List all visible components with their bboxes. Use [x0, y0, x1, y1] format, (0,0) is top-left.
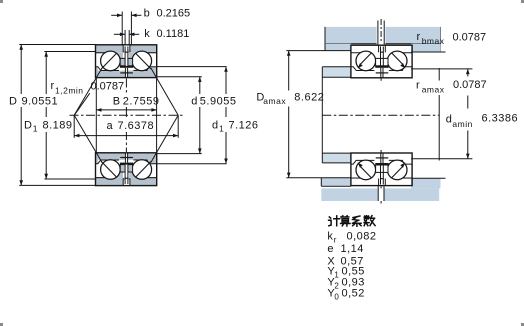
- shaft cut line right: [438, 68, 440, 81]
- svg-text:7.126: 7.126: [229, 119, 259, 131]
- svg-text:5.9055: 5.9055: [200, 96, 237, 108]
- centreline ticks at shaft bore lines: [380, 78, 382, 81]
- svg-text:6.3386: 6.3386: [482, 113, 519, 125]
- shaft shoulder bottom: [323, 153, 352, 163]
- svg-text:r: r: [416, 80, 420, 92]
- dim Da line + arrows: [288, 51, 290, 91]
- housing shoulder top-right: [411, 44, 440, 52]
- vertical centreline left figure: [125, 79, 127, 95]
- svg-text:e: e: [327, 243, 334, 255]
- svg-text:2.7559: 2.7559: [123, 96, 160, 108]
- housing shoulder top-left: [325, 44, 351, 51]
- svg-text:k: k: [327, 230, 333, 242]
- svg-text:1: 1: [219, 124, 224, 134]
- svg-text:r: r: [417, 31, 421, 43]
- r leader: [75, 93, 90, 115]
- svg-text:0,52: 0,52: [342, 288, 365, 300]
- svg-text:8.622: 8.622: [294, 92, 324, 104]
- svg-text:0.0787: 0.0787: [91, 80, 125, 92]
- vertical centreline right figure: [380, 19, 382, 43]
- svg-text:r: r: [334, 236, 337, 245]
- svg-text:7.6378: 7.6378: [118, 120, 155, 132]
- dim a line + arrows: [74, 135, 178, 137]
- svg-text:d: d: [212, 119, 219, 131]
- right bearing lower half (mirrored): [351, 153, 412, 186]
- dim d1 extension lines: [157, 66, 227, 68]
- lubrication hole through housing: [377, 21, 379, 46]
- housing shoulder bottom-right: [411, 178, 440, 188]
- svg-text:D: D: [24, 119, 32, 131]
- svg-text:a: a: [107, 120, 114, 132]
- svg-text:0,55: 0,55: [342, 265, 365, 277]
- svg-text:1: 1: [33, 124, 38, 134]
- svg-text:amin: amin: [452, 119, 472, 129]
- table heading 计算系数 (drawn): [329, 216, 376, 227]
- right bearing upper half: [351, 45, 412, 78]
- dim D1 extension lines: [44, 51, 95, 53]
- bearing face extension lines (B): [95, 78, 97, 153]
- housing shoulder bottom-left: [321, 178, 351, 186]
- dim D line + arrows: [20, 45, 22, 95]
- svg-text:amax: amax: [263, 96, 286, 106]
- svg-text:1,2min: 1,2min: [55, 85, 84, 95]
- dim d1 line + arrows: [225, 67, 227, 94]
- svg-text:k: k: [144, 28, 150, 40]
- svg-text:D: D: [9, 96, 17, 108]
- dim D1 line + arrows: [45, 52, 47, 95]
- svg-text:B: B: [113, 96, 121, 108]
- left bearing upper half: [74, 45, 178, 115]
- dim b arrows: [111, 14, 122, 16]
- housing bottom block: [321, 188, 439, 201]
- dim da line + arrows: [467, 69, 469, 77]
- pressure-centre droppers: [73, 115, 75, 138]
- left bearing lower half (mirrored): [74, 115, 178, 185]
- svg-text:d: d: [191, 96, 198, 108]
- dim B line + arrows: [96, 109, 156, 111]
- svg-text:b: b: [144, 7, 151, 19]
- svg-text:0: 0: [334, 292, 339, 301]
- svg-text:1,14: 1,14: [341, 243, 364, 255]
- shaft shoulder top: [323, 67, 352, 77]
- dim da extension lines: [411, 68, 472, 70]
- svg-text:bmax: bmax: [422, 36, 445, 46]
- dim k arrows: [114, 33, 125, 35]
- horizontal centreline left figure: [70, 114, 184, 116]
- horizontal centreline right figure: [322, 114, 439, 116]
- svg-text:0.0787: 0.0787: [453, 79, 487, 91]
- svg-text:0.2165: 0.2165: [157, 7, 191, 19]
- svg-text:0.0787: 0.0787: [453, 31, 487, 43]
- shaft cut line left: [321, 67, 323, 163]
- groove width dim b : extension lines: [121, 12, 123, 45]
- svg-text:0.1181: 0.1181: [157, 28, 190, 40]
- svg-text:0,082: 0,082: [347, 230, 377, 242]
- svg-text:8.189: 8.189: [43, 119, 73, 131]
- dim d extension lines: [157, 76, 202, 78]
- housing top block: [325, 27, 441, 44]
- dim D extension lines: [19, 44, 96, 46]
- dim d line + arrows: [199, 77, 201, 94]
- corner marks: [0, 0, 3, 3]
- svg-text:amax: amax: [422, 84, 445, 94]
- svg-text:9.0551: 9.0551: [22, 96, 59, 108]
- hole dia dim k : extension lines: [124, 30, 126, 45]
